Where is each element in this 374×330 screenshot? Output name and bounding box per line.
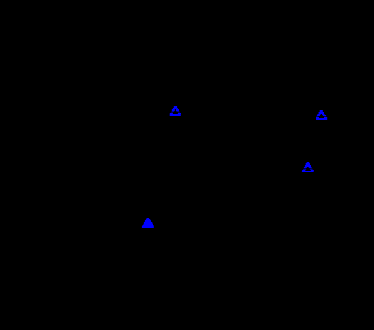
- ground G1: [170, 106, 181, 116]
- ground G3: [302, 162, 314, 172]
- wire: [147, 228, 149, 246]
- power flag VCC: [142, 218, 154, 228]
- ground G2: [316, 110, 327, 120]
- wire: [321, 90, 323, 110]
- wire: [307, 142, 309, 162]
- wire: [174, 84, 176, 106]
